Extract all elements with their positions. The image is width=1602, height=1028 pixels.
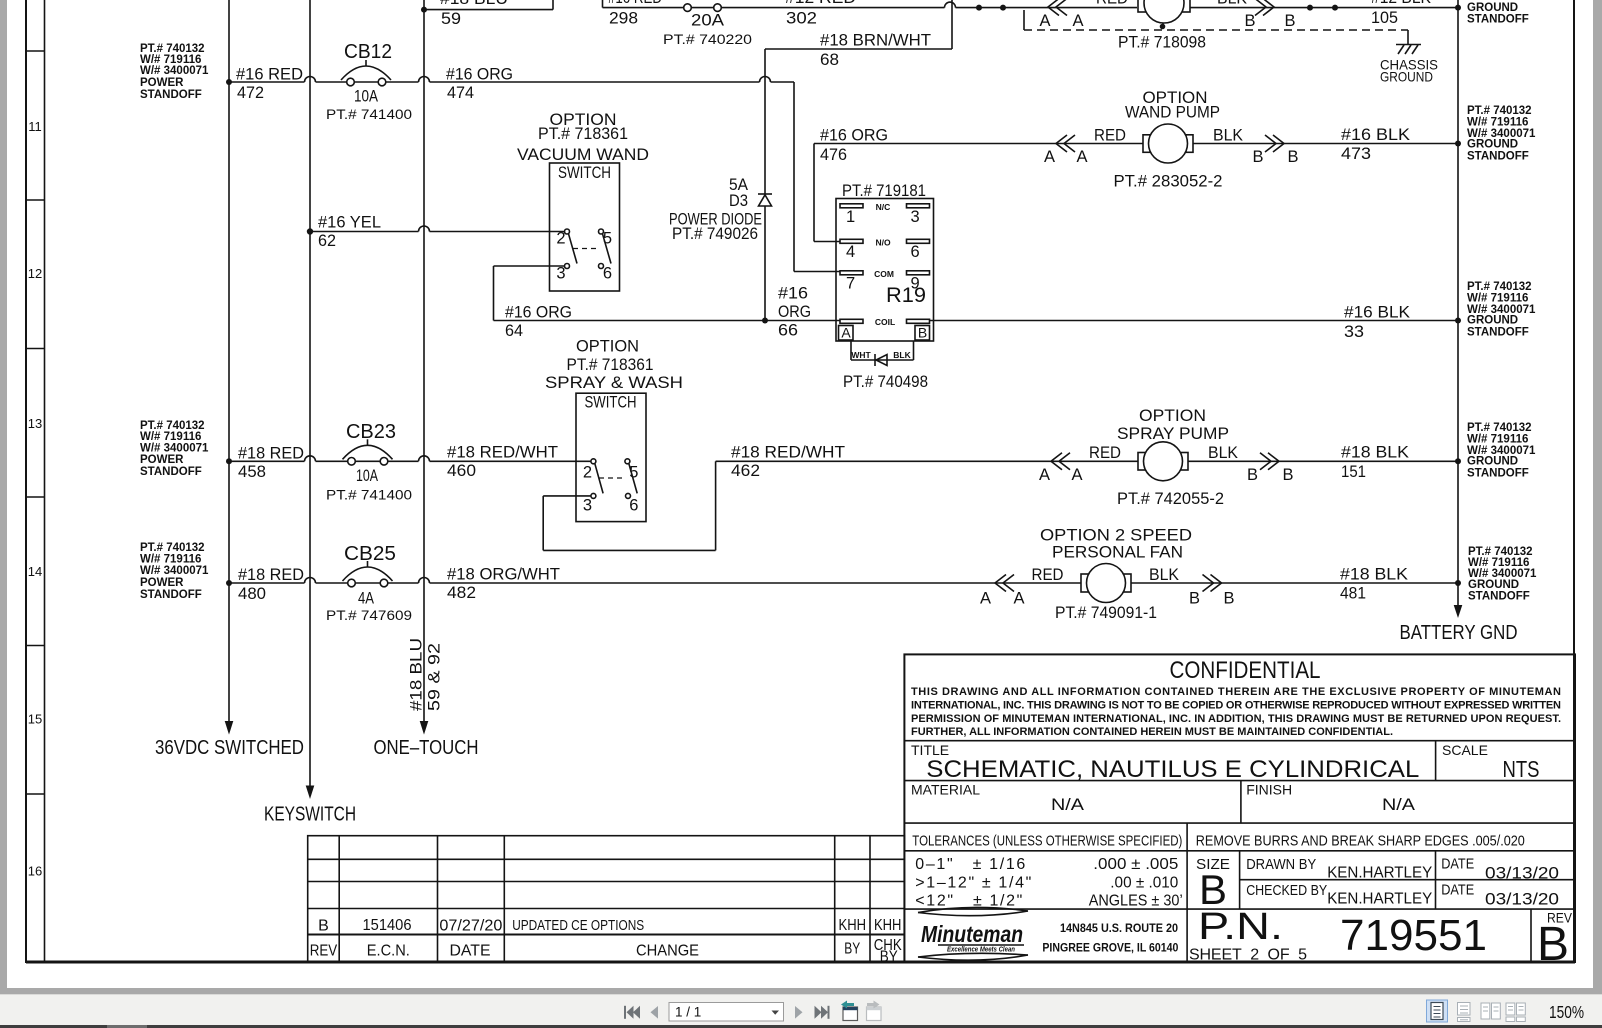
svg-text:STANDOFF: STANDOFF [1467, 14, 1529, 26]
svg-text:PT.# 718361: PT.# 718361 [567, 356, 654, 374]
left grey gutter [0, 0, 7, 994]
svg-text:481: 481 [1340, 585, 1366, 603]
wand pump option labels [1125, 89, 1220, 122]
svg-text:473: 473 [1341, 145, 1371, 163]
vacuum wand switch box [550, 163, 620, 291]
svg-text:ANGLES ± 30’: ANGLES ± 30’ [1089, 893, 1183, 910]
toolbar: last page button [815, 1006, 830, 1019]
svg-text:1: 1 [846, 208, 855, 226]
svg-text:151406: 151406 [363, 917, 412, 934]
svg-text:N/C: N/C [876, 202, 891, 212]
svg-text:ORG: ORG [778, 303, 811, 321]
svg-text:2: 2 [583, 464, 592, 482]
svg-text:472: 472 [237, 84, 264, 102]
svg-text:R19: R19 [886, 284, 926, 307]
svg-text:7: 7 [846, 275, 855, 293]
svg-text:PT.# 749026: PT.# 749026 [672, 225, 758, 243]
toolbar: previous view icon [841, 1001, 858, 1021]
wire #18 ORG/WHT 482 [388, 566, 1458, 603]
svg-text:STANDOFF: STANDOFF [1467, 468, 1529, 480]
svg-text:BY: BY [880, 948, 898, 965]
svg-text:07/27/20: 07/27/20 [439, 918, 502, 935]
svg-text:BLK: BLK [1208, 444, 1238, 462]
svg-text:59 & 92: 59 & 92 [426, 643, 444, 711]
svg-text:OPTION: OPTION [576, 338, 639, 356]
R19 terminal 4 N/O [840, 238, 930, 262]
circuit breaker CB12 10A [326, 41, 412, 122]
svg-text:PT.# 742055-2: PT.# 742055-2 [1117, 490, 1224, 508]
toolbar: two page scroll view icon [1506, 1003, 1525, 1022]
svg-text:PT.# 741400: PT.# 741400 [326, 488, 412, 503]
svg-text:302: 302 [786, 10, 817, 28]
svg-text:36VDC SWITCHED: 36VDC SWITCHED [155, 737, 304, 759]
svg-text:474: 474 [447, 84, 474, 102]
svg-text:SHEET 2 OF 5: SHEET 2 OF 5 [1189, 947, 1307, 964]
svg-text:66: 66 [778, 322, 798, 340]
svg-text:6: 6 [603, 265, 612, 283]
svg-text:GROUND: GROUND [1467, 315, 1518, 327]
svg-text:CHECKED BY: CHECKED BY [1246, 882, 1327, 899]
svg-text:#18 BLU: #18 BLU [408, 638, 426, 711]
connector B-B (personal fan) [1149, 566, 1235, 608]
svg-text:03/13/20: 03/13/20 [1485, 864, 1559, 883]
svg-text:719551: 719551 [1340, 911, 1487, 960]
svg-text:B: B [1282, 466, 1293, 484]
svg-text:B: B [918, 325, 927, 341]
svg-text:KEN.HARTLEY: KEN.HARTLEY [1327, 891, 1432, 908]
wire #16 ORG 64 (switch pin3 to relay coil) [494, 266, 841, 340]
svg-text:CB12: CB12 [344, 41, 392, 63]
dark bottom strip [0, 1025, 1602, 1028]
svg-text:59: 59 [441, 10, 461, 28]
svg-text:STANDOFF: STANDOFF [140, 89, 202, 101]
svg-text:150%: 150% [1549, 1002, 1584, 1022]
svg-text:PT.# 740498: PT.# 740498 [843, 373, 928, 391]
svg-text:POWER: POWER [140, 77, 184, 89]
right grey gutter [1593, 0, 1602, 994]
svg-text:SWITCH: SWITCH [558, 164, 611, 182]
svg-text:.00 ± .010: .00 ± .010 [1110, 874, 1178, 891]
svg-text:#18 BLK: #18 BLK [1340, 566, 1408, 584]
tolerance rows [915, 856, 1182, 910]
svg-text:W/# 719116: W/# 719116 [1467, 434, 1528, 446]
svg-text:CHANGE: CHANGE [636, 943, 699, 960]
svg-text:A: A [1071, 466, 1082, 484]
svg-text:PT.# 740132: PT.# 740132 [140, 542, 205, 554]
svg-text:VACUUM WAND: VACUUM WAND [517, 146, 649, 164]
wire #18 RED/WHT 460 [388, 444, 591, 481]
svg-text:FURTHER, ALL INFORMATION CONTA: FURTHER, ALL INFORMATION CONTAINED HEREI… [911, 726, 1393, 738]
svg-text:RED: RED [1089, 444, 1121, 462]
svg-text:105: 105 [1371, 9, 1398, 27]
svg-text:11: 11 [28, 119, 42, 134]
svg-text:03/13/20: 03/13/20 [1485, 890, 1559, 909]
connector A-A (wand pump) [1044, 127, 1126, 167]
svg-text:#18 RED: #18 RED [238, 445, 304, 463]
wire #18 BLK 151 [1341, 444, 1461, 482]
svg-text:GROUND: GROUND [1468, 579, 1519, 591]
svg-text:GROUND: GROUND [1467, 139, 1518, 151]
circuit breaker 20A PT.# 740220 [663, 4, 752, 47]
svg-text:14N845 U.S. ROUTE 20: 14N845 U.S. ROUTE 20 [1060, 921, 1178, 935]
svg-text:1 / 1: 1 / 1 [675, 1005, 701, 1020]
svg-text:476: 476 [820, 146, 847, 164]
svg-text:DATE: DATE [450, 943, 491, 960]
svg-text:E.C.N.: E.C.N. [367, 943, 410, 960]
svg-text:6: 6 [629, 497, 638, 515]
svg-text:BLK: BLK [1149, 566, 1179, 584]
svg-text:INTERNATIONAL, INC. THIS DRAWI: INTERNATIONAL, INC. THIS DRAWING IS NOT … [911, 700, 1561, 712]
svg-text:A: A [980, 590, 991, 608]
power standoff note row 11 [140, 43, 209, 101]
svg-text:GROUND: GROUND [1467, 2, 1518, 14]
connector B-B (wand pump) [1213, 127, 1299, 167]
svg-text:W/# 3400071: W/# 3400071 [140, 565, 209, 577]
svg-text:68: 68 [820, 51, 839, 69]
svg-text:33: 33 [1344, 323, 1364, 341]
svg-text:A: A [1076, 148, 1087, 166]
toolbar: two page view icon [1481, 1003, 1500, 1019]
viewer toolbar [0, 994, 1602, 1025]
ground bus right (x=1458) [1454, 0, 1463, 618]
svg-text:OPTION 2 SPEED: OPTION 2 SPEED [1040, 527, 1192, 545]
svg-text:2: 2 [556, 230, 565, 248]
svg-text:KHH: KHH [874, 917, 902, 934]
svg-text:DRAWN BY: DRAWN BY [1246, 856, 1316, 873]
personal fan motor PT.# 749091-1 [1055, 564, 1157, 623]
wire #16 YEL 62 [307, 214, 565, 251]
R19 coil terminals A/B [839, 317, 930, 341]
svg-text:4: 4 [846, 243, 855, 261]
wire #18 BLU 59 (top, partial) [421, 0, 553, 28]
svg-text:A: A [1072, 12, 1083, 30]
svg-text:PERSONAL FAN: PERSONAL FAN [1052, 544, 1183, 562]
svg-text:DATE: DATE [1441, 856, 1474, 873]
svg-text:COIL: COIL [875, 317, 895, 327]
vacuum motor (partial, top) PT.# 718098 [1118, 0, 1206, 52]
wire #16 BLK 33 [930, 304, 1462, 342]
svg-text:482: 482 [447, 584, 476, 602]
wire #18 BRN/WHT 68 [765, 0, 952, 69]
bus 36VDC SWITCHED (x=229) [225, 0, 234, 735]
connector B-B (spray pump) [1208, 444, 1294, 484]
svg-text:#16 RED: #16 RED [608, 0, 662, 7]
svg-text:A: A [841, 325, 851, 341]
svg-text:CB25: CB25 [344, 543, 396, 565]
svg-text:PT.# 283052-2: PT.# 283052-2 [1114, 173, 1223, 191]
svg-text:B: B [1284, 12, 1295, 30]
bus ONE-TOUCH (x=424) [420, 0, 429, 735]
svg-text:RED: RED [1096, 0, 1128, 8]
ground standoff note (top right, partial) [1467, 2, 1529, 26]
svg-text:D3: D3 [729, 192, 748, 210]
svg-text:#18 BRN/WHT: #18 BRN/WHT [820, 32, 931, 50]
spray & wash option labels [545, 338, 683, 393]
svg-text:REMOVE BURRS AND BREAK SHARP E: REMOVE BURRS AND BREAK SHARP EDGES .005/… [1196, 833, 1525, 850]
svg-text:STANDOFF: STANDOFF [1467, 327, 1529, 339]
toolbar: first page button [624, 1006, 640, 1019]
dashed enclosure (vacuum motor) [1024, 29, 1408, 31]
svg-text:#18 RED: #18 RED [238, 566, 304, 584]
svg-text:A: A [1013, 590, 1024, 608]
svg-text:#18 BLU: #18 BLU [440, 0, 508, 8]
R19 terminal 1 N/C [840, 202, 930, 226]
connector B-B (vacuum motor, top) [1190, 0, 1461, 30]
svg-text:REV: REV [310, 943, 338, 960]
svg-text:>1–12" ± 1/4": >1–12" ± 1/4" [915, 874, 1031, 891]
wand pump motor PT.# 283052-2 [1114, 124, 1223, 191]
Minuteman logo [918, 907, 1028, 960]
svg-text:Minuteman: Minuteman [921, 921, 1023, 947]
svg-text:GROUND: GROUND [1467, 456, 1518, 468]
R19 terminal 7 COM [840, 269, 930, 293]
spray & wash switch contacts [583, 459, 638, 515]
connector A-A (vacuum motor, top) [1024, 0, 1128, 30]
svg-text:STANDOFF: STANDOFF [1468, 591, 1530, 603]
svg-text:#16 BLK: #16 BLK [1344, 304, 1410, 322]
toolbar: previous page button [651, 1006, 659, 1019]
spray pump motor PT.# 742055-2 [1117, 442, 1224, 508]
svg-text:B: B [1247, 466, 1258, 484]
svg-text:W/# 719116: W/# 719116 [1467, 117, 1528, 129]
personal fan option labels [1040, 527, 1192, 562]
svg-text:460: 460 [447, 462, 476, 480]
svg-text:B: B [1223, 590, 1234, 608]
svg-text:10A: 10A [354, 88, 378, 106]
toolbar: next page button [795, 1006, 803, 1019]
title block outer frame [904, 654, 1575, 962]
svg-text:#12 BLK: #12 BLK [1371, 0, 1431, 7]
svg-text:14: 14 [28, 564, 42, 579]
svg-text:STANDOFF: STANDOFF [1467, 151, 1529, 163]
spray pump option labels [1117, 407, 1229, 443]
ground standoff note row 12 [1467, 281, 1536, 339]
svg-text:B: B [318, 918, 329, 935]
svg-text:298: 298 [609, 10, 638, 28]
drawing frame: right border [1573, 0, 1575, 963]
svg-text:15: 15 [28, 712, 42, 727]
svg-text:#16 YEL: #16 YEL [318, 214, 381, 232]
svg-text:458: 458 [238, 463, 266, 481]
bottom grey band [0, 988, 1602, 994]
svg-text:#16 ORG: #16 ORG [446, 66, 513, 84]
svg-text:PT.# 718361: PT.# 718361 [538, 125, 628, 143]
svg-text:6: 6 [911, 243, 920, 261]
svg-text:W/# 3400071: W/# 3400071 [140, 65, 209, 77]
spray & wash switch box [576, 393, 646, 521]
wire 474 drop to R19 COM [794, 82, 840, 272]
svg-text:PT.# 747609: PT.# 747609 [326, 608, 412, 623]
svg-text:OPTION: OPTION [1139, 407, 1206, 425]
svg-text:0–1" ± 1/16: 0–1" ± 1/16 [915, 856, 1025, 873]
svg-text:SCALE: SCALE [1442, 742, 1488, 758]
svg-text:WHT: WHT [851, 350, 871, 360]
revision row B 151406 [318, 917, 901, 935]
circuit breaker CB25 4A PT.# 747609 [326, 543, 412, 623]
power diode D3 5A PT.# 749026 [669, 49, 772, 321]
svg-text:SPRAY PUMP: SPRAY PUMP [1117, 425, 1229, 443]
circuit breaker CB23 10A [326, 421, 412, 503]
svg-text:151: 151 [1341, 463, 1366, 481]
svg-text:A: A [1044, 148, 1055, 166]
svg-text:ONE–TOUCH: ONE–TOUCH [374, 737, 479, 759]
svg-text:B: B [1189, 590, 1200, 608]
svg-text:POWER: POWER [140, 454, 184, 466]
vacuum wand option labels [517, 111, 649, 164]
svg-text:B: B [1252, 148, 1263, 166]
svg-text:N/A: N/A [1051, 795, 1085, 814]
svg-text:B: B [1287, 148, 1298, 166]
svg-text:16: 16 [28, 864, 42, 879]
svg-text:3: 3 [911, 208, 920, 226]
svg-text:462: 462 [731, 462, 760, 480]
power standoff note row 14 [140, 542, 209, 601]
svg-text:3: 3 [583, 497, 592, 515]
wire #16 ORG 476 [814, 127, 1458, 242]
svg-text:#16 ORG: #16 ORG [505, 304, 572, 322]
svg-text:FINISH: FINISH [1246, 782, 1292, 798]
relay R19 PT.# 719181 [836, 182, 934, 341]
svg-text:.000 ± .005: .000 ± .005 [1093, 856, 1178, 873]
svg-text:BATTERY GND: BATTERY GND [1400, 622, 1518, 644]
svg-text:#12 RED: #12 RED [785, 0, 856, 7]
bus KEYSWITCH (x=310) [306, 0, 315, 799]
svg-text:THIS DRAWING AND ALL INFORMATI: THIS DRAWING AND ALL INFORMATION CONTAIN… [911, 686, 1561, 698]
drawing frame: left zone column [26, 0, 45, 963]
wire #16 RED 472 [226, 66, 347, 103]
svg-text:W/# 719116: W/# 719116 [140, 554, 201, 566]
wire #16 BLK 473 [1341, 126, 1461, 163]
svg-text:CONFIDENTIAL: CONFIDENTIAL [1170, 657, 1321, 684]
svg-text:PERMISSION OF MINUTEMAN INTERN: PERMISSION OF MINUTEMAN INTERNATIONAL, I… [911, 713, 1561, 725]
svg-text:12: 12 [28, 266, 42, 281]
svg-text:WAND PUMP: WAND PUMP [1125, 104, 1220, 122]
svg-text:20A: 20A [691, 12, 724, 30]
svg-text:Excellence Meets Clean: Excellence Meets Clean [947, 947, 1015, 954]
revision table header REV ECN DATE CHANGE BY CHKBY [310, 937, 902, 966]
toolbar: continuous scroll view icon [1458, 1003, 1471, 1022]
svg-text:3: 3 [556, 265, 565, 283]
svg-text:#16 ORG: #16 ORG [820, 127, 888, 145]
wire #12 RED 302 [721, 0, 1137, 28]
svg-text:480: 480 [238, 585, 266, 603]
svg-text:PT.# 740132: PT.# 740132 [1467, 281, 1532, 293]
svg-text:PT.# 749091-1: PT.# 749091-1 [1055, 604, 1157, 622]
wire #18 RED 458 [226, 445, 348, 482]
svg-text:#16 BLK: #16 BLK [1341, 126, 1410, 144]
svg-text:KEYSWITCH: KEYSWITCH [264, 804, 356, 826]
svg-text:PT.# 719181: PT.# 719181 [842, 182, 926, 200]
svg-text:BLK: BLK [893, 350, 911, 360]
ground standoff note row 11 [1467, 105, 1536, 163]
svg-text:#18 ORG/WHT: #18 ORG/WHT [447, 566, 560, 584]
wire #16 RED 298 (top, partial) [603, 0, 684, 28]
chassis ground [1380, 30, 1438, 85]
power standoff note row 13 [140, 420, 209, 478]
svg-text:W/# 719116: W/# 719116 [140, 431, 201, 443]
svg-text:KHH: KHH [839, 917, 867, 934]
svg-text:PT.# 740132: PT.# 740132 [1467, 422, 1532, 434]
svg-text:BY: BY [844, 941, 860, 958]
company address [1042, 921, 1178, 955]
svg-text:#18 RED/WHT: #18 RED/WHT [447, 444, 558, 462]
svg-text:W/# 3400071: W/# 3400071 [140, 443, 209, 455]
R19 coil suppression diode PT.# 740498 [843, 341, 928, 391]
svg-text:STANDOFF: STANDOFF [140, 466, 202, 478]
svg-text:#18 RED/WHT: #18 RED/WHT [731, 444, 845, 462]
svg-text:SWITCH: SWITCH [585, 394, 637, 412]
wire #18 BLK 481 [1340, 566, 1461, 603]
svg-text:BLK: BLK [1217, 0, 1247, 8]
svg-text:64: 64 [505, 322, 523, 340]
toolbar: next view icon (disabled) [867, 1001, 882, 1021]
svg-text:POWER: POWER [140, 577, 184, 589]
svg-text:B: B [1537, 918, 1569, 971]
confidential paragraph [911, 686, 1561, 738]
svg-text:CB23: CB23 [346, 421, 396, 443]
svg-text:PINGREE GROVE, IL 60140: PINGREE GROVE, IL 60140 [1042, 941, 1178, 955]
svg-text:TOLERANCES (UNLESS OTHERWISE S: TOLERANCES (UNLESS OTHERWISE SPECIFIED) [912, 833, 1182, 850]
svg-text:N/A: N/A [1382, 795, 1416, 814]
ground standoff note row 14 [1468, 546, 1537, 603]
wire #18 RED/WHT 462 (pin3 loop to spray pump) [543, 444, 1458, 551]
svg-text:PT.# 740220: PT.# 740220 [663, 32, 752, 47]
svg-text:DATE: DATE [1441, 882, 1474, 899]
svg-text:62: 62 [318, 232, 336, 250]
svg-text:MATERIAL: MATERIAL [911, 782, 980, 798]
svg-text:10A: 10A [356, 467, 378, 485]
wire #18 RED 480 [226, 566, 348, 603]
svg-text:GROUND: GROUND [1380, 69, 1433, 85]
ground standoff note row 13 [1467, 422, 1536, 480]
svg-text:KEN.HARTLEY: KEN.HARTLEY [1327, 865, 1432, 882]
connector A-A (spray pump) [1039, 444, 1121, 484]
toolbar: single page view icon (selected) [1427, 1000, 1448, 1022]
svg-text:SCHEMATIC, NAUTILUS E CYLINDRI: SCHEMATIC, NAUTILUS E CYLINDRICAL [926, 756, 1419, 783]
svg-text:BLK: BLK [1213, 127, 1243, 145]
svg-text:PT.# 741400: PT.# 741400 [326, 107, 412, 122]
svg-text:4A: 4A [358, 590, 374, 608]
svg-text:RED: RED [1032, 566, 1064, 584]
svg-text:#16: #16 [778, 285, 808, 303]
svg-text:PT.# 740132: PT.# 740132 [1467, 105, 1532, 117]
svg-text:W/# 719116: W/# 719116 [1467, 293, 1528, 305]
svg-text:A: A [1039, 12, 1050, 30]
svg-text:SPRAY & WASH: SPRAY & WASH [545, 374, 683, 392]
svg-text:B: B [1244, 12, 1255, 30]
svg-text:NTS: NTS [1503, 756, 1540, 782]
svg-text:STANDOFF: STANDOFF [140, 589, 202, 601]
svg-text:UPDATED CE OPTIONS: UPDATED CE OPTIONS [512, 917, 644, 934]
svg-text:A: A [1039, 466, 1050, 484]
svg-text:PT.# 718098: PT.# 718098 [1118, 34, 1206, 52]
svg-text:N/O: N/O [875, 238, 891, 248]
vacuum wand switch contacts [556, 229, 612, 283]
svg-text:COM: COM [874, 269, 894, 279]
connector A-A (personal fan) [980, 566, 1064, 608]
wire #16 ORG 474 [386, 66, 794, 103]
svg-text:#18 BLK: #18 BLK [1341, 444, 1409, 462]
revision table [308, 836, 905, 962]
svg-text:13: 13 [28, 416, 42, 431]
drawing frame: bottom border [26, 961, 1575, 964]
svg-text:P.N.: P.N. [1198, 906, 1283, 948]
toolbar: page number box [669, 1003, 784, 1022]
svg-text:RED: RED [1094, 127, 1126, 145]
svg-text:#16 RED: #16 RED [236, 66, 303, 84]
